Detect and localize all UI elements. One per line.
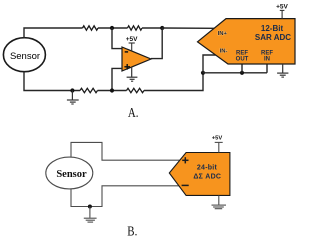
ADC U3: 24-bit delta-sigma ADC <box>169 153 230 196</box>
resistor R3 <box>80 88 98 92</box>
wire junction down to op-amp inverting input <box>112 28 122 49</box>
svg-text:IN-: IN- <box>220 48 228 54</box>
wire R4 to reference junction riser <box>144 73 203 91</box>
wire sensor top to ADC + input <box>71 142 180 160</box>
node: REF OUT tap <box>240 71 244 75</box>
ground (ADC A) <box>277 64 288 77</box>
resistor R1 <box>83 26 99 30</box>
ground (bottom rail) <box>67 91 79 105</box>
wire output node to ADC IN+ <box>162 27 214 29</box>
svg-text:IN+: IN+ <box>218 31 228 37</box>
svg-text:12-Bit: 12-Bit <box>261 24 284 33</box>
wire REF IN pin <box>266 64 268 73</box>
+5V supply (op-amp) <box>126 36 138 51</box>
op-amp U1 <box>122 47 151 71</box>
node: reference / IN- junction <box>201 71 205 75</box>
wire sensor bottom rail (left segment) <box>24 72 80 91</box>
svg-text:+5V: +5V <box>276 4 288 11</box>
sensor (circuit B) <box>46 157 93 189</box>
svg-text:Sensor: Sensor <box>56 169 87 180</box>
svg-text:SAR ADC: SAR ADC <box>255 33 291 42</box>
ADC U2: 12-Bit SAR ADC <box>198 19 296 64</box>
sensor (circuit A) <box>3 38 45 72</box>
node: ground tap (circuit B) <box>88 205 92 209</box>
svg-text:+5V: +5V <box>126 36 138 43</box>
node: non-inverting junction <box>110 88 114 92</box>
svg-text:Sensor: Sensor <box>10 51 40 62</box>
wire REF OUT pin <box>241 64 243 73</box>
wire R2 to output node <box>142 27 162 29</box>
svg-text:IN: IN <box>264 57 270 63</box>
ground (op-amp) <box>127 67 138 82</box>
+5V supply (ADC A) <box>276 4 288 19</box>
svg-text:ΔΣ ADC: ΔΣ ADC <box>193 174 221 181</box>
ground (ADC B) <box>212 195 227 208</box>
wire output node down to op-amp output <box>151 28 162 59</box>
svg-text:B.: B. <box>127 223 137 239</box>
ground (circuit B rail) <box>84 207 97 223</box>
wire R1 to R2 <box>98 27 128 29</box>
node: op-amp output junction <box>160 26 164 30</box>
resistor R4 <box>127 88 145 92</box>
wire reference rail to REF IN <box>203 72 267 74</box>
wire R3 to R4 <box>98 90 127 92</box>
svg-text:+5V: +5V <box>212 136 223 142</box>
wire sensor top to resistor R1 <box>24 28 83 38</box>
wire sensor bottom to ADC - input <box>71 186 179 207</box>
svg-text:A.: A. <box>128 105 139 121</box>
svg-text:24-bit: 24-bit <box>197 165 218 172</box>
node: inverting input junction <box>110 26 114 30</box>
wire junction up to ADC IN- <box>203 55 216 73</box>
+5V supply (ADC B) <box>212 136 223 153</box>
node: ground tap on bottom rail <box>70 88 74 92</box>
wire op-amp non-inverting input to bottom rail <box>112 68 122 90</box>
svg-text:OUT: OUT <box>236 57 249 63</box>
resistor R2 (feedback) <box>128 26 143 30</box>
